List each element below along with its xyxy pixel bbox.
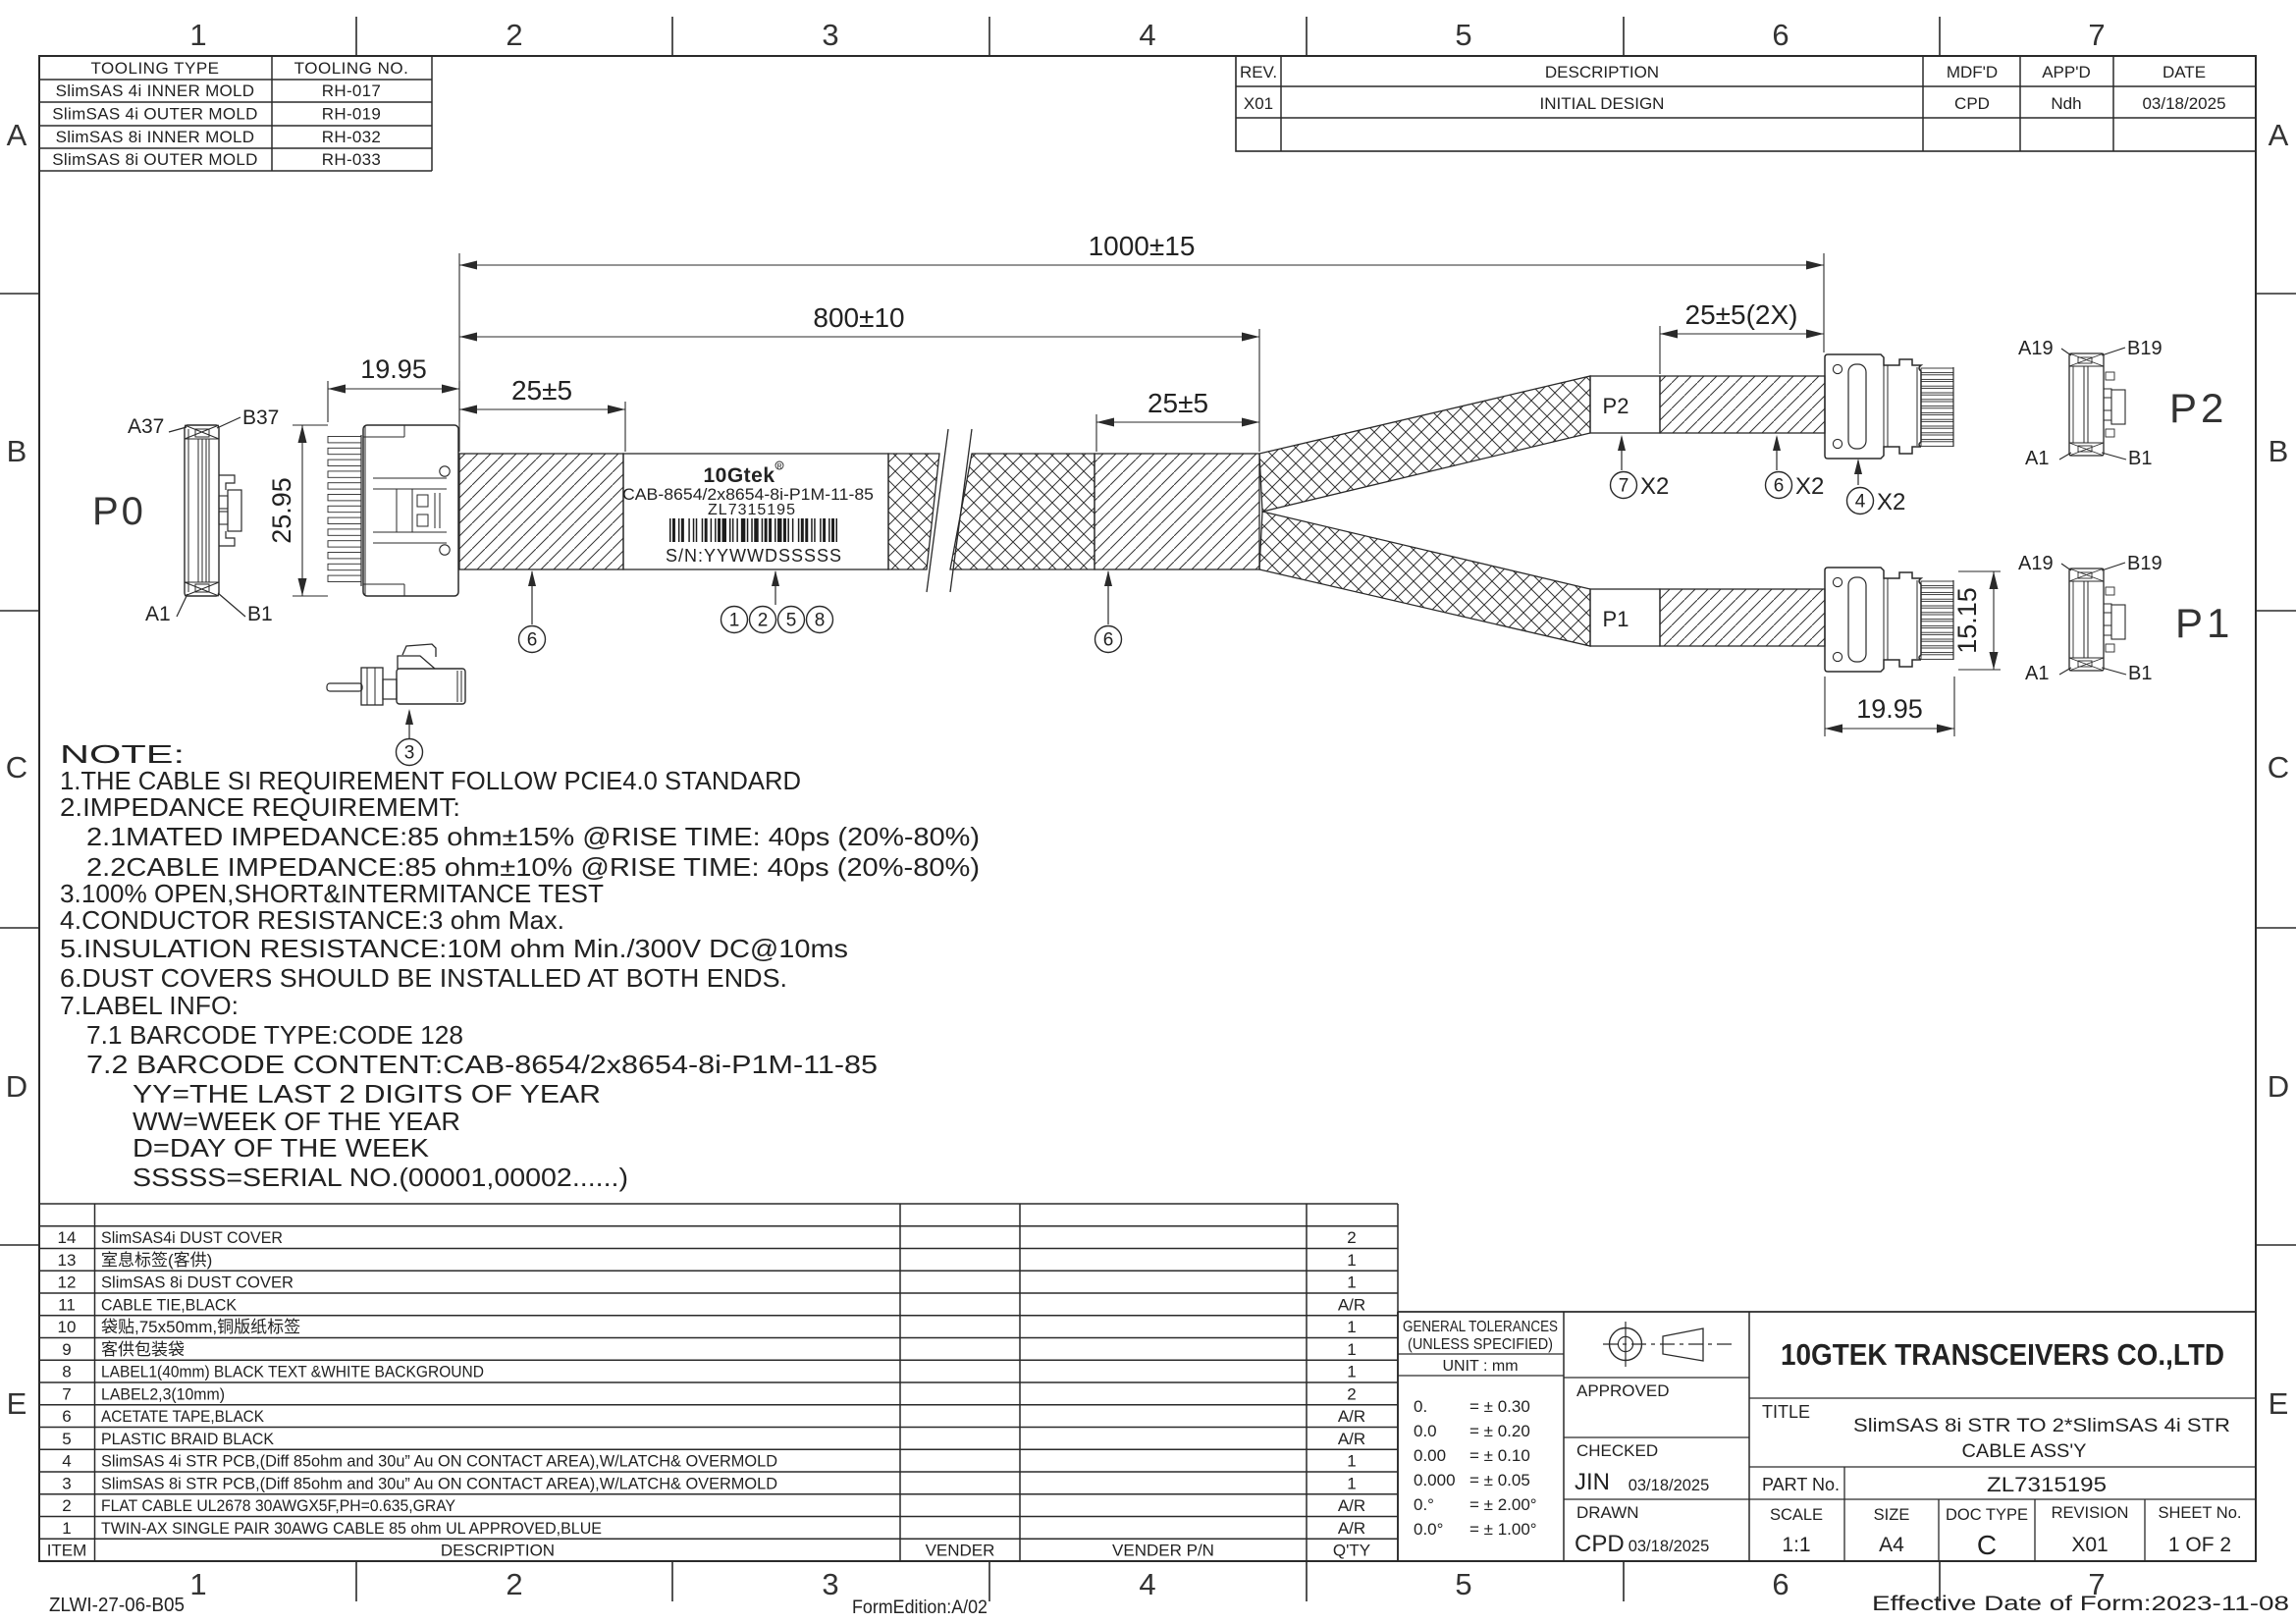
svg-text:Q'TY: Q'TY: [1333, 1542, 1370, 1560]
svg-text:3: 3: [822, 18, 838, 52]
svg-text:1: 1: [1347, 1251, 1356, 1270]
svg-text:7.1 BARCODE TYPE:CODE 128: 7.1 BARCODE TYPE:CODE 128: [86, 1020, 463, 1050]
cable label box: [623, 454, 888, 569]
svg-text:APP'D: APP'D: [2042, 63, 2091, 81]
svg-text:SlimSAS 4i STR PCB,(Diff 85ohm: SlimSAS 4i STR PCB,(Diff 85ohm and 30u” …: [101, 1452, 777, 1471]
svg-text:P1: P1: [1603, 607, 1629, 631]
P0 inner latch detail: [373, 477, 447, 479]
svg-text:= ± 0.10: = ± 0.10: [1469, 1446, 1530, 1465]
svg-text:B: B: [7, 434, 27, 468]
svg-text:SIZE: SIZE: [1874, 1506, 1910, 1524]
svg-text:4: 4: [1139, 1567, 1155, 1601]
svg-text:LABEL2,3(10mm): LABEL2,3(10mm): [101, 1384, 225, 1403]
dim 1000±15: [458, 253, 460, 452]
svg-text:ACETATE TAPE,BLACK: ACETATE TAPE,BLACK: [101, 1407, 265, 1426]
svg-text:A1: A1: [2025, 448, 2049, 469]
svg-text:1: 1: [1347, 1452, 1356, 1471]
tooling table: [39, 79, 432, 81]
svg-text:B19: B19: [2127, 338, 2163, 359]
svg-text:PART No.: PART No.: [1762, 1475, 1840, 1494]
svg-text:6: 6: [1772, 1567, 1789, 1601]
svg-text:3.100% OPEN,SHORT&INTERMITANCE: 3.100% OPEN,SHORT&INTERMITANCE TEST: [60, 879, 604, 908]
svg-text:SlimSAS 8i STR TO 2*SlimSA: SlimSAS 8i STR TO 2*SlimSAS 4i STR: [1853, 1415, 2230, 1436]
svg-text:= ± 0.05: = ± 0.05: [1469, 1471, 1530, 1489]
svg-text:1: 1: [1347, 1363, 1356, 1381]
svg-text:25±5: 25±5: [1148, 388, 1208, 418]
svg-text:室息标签(客供): 室息标签(客供): [101, 1251, 212, 1270]
svg-text:6: 6: [1772, 18, 1789, 52]
svg-text:4: 4: [62, 1452, 71, 1471]
svg-text:2.1MATED IMPEDANCE:85 ohm±15%: 2.1MATED IMPEDANCE:85 ohm±15% @RISE TIME…: [86, 822, 980, 851]
dim 800±10: [1258, 329, 1260, 452]
svg-text:客供包装袋: 客供包装袋: [101, 1340, 185, 1359]
dim 19.95 P0: [327, 381, 329, 422]
svg-text:ITEM: ITEM: [47, 1542, 87, 1560]
svg-text:SlimSAS 8i DUST COVER: SlimSAS 8i DUST COVER: [101, 1273, 294, 1292]
svg-text:SHEET No.: SHEET No.: [2159, 1504, 2242, 1522]
svg-text:0.0: 0.0: [1414, 1422, 1437, 1440]
svg-text:E: E: [2269, 1386, 2289, 1421]
svg-text:INITIAL DESIGN: INITIAL DESIGN: [1540, 94, 1665, 113]
callout 6 mid: [1107, 571, 1109, 624]
svg-text:1: 1: [189, 18, 206, 52]
braid upper branch: [1259, 376, 1590, 512]
svg-text:SSSSS=SERIAL NO.(00001,00002..: SSSSS=SERIAL NO.(00001,00002......): [133, 1163, 628, 1192]
svg-text:REV.: REV.: [1240, 63, 1277, 81]
svg-text:2: 2: [62, 1496, 71, 1515]
svg-text:ZL7315195: ZL7315195: [708, 502, 796, 518]
svg-text:X2: X2: [1877, 489, 1905, 515]
svg-text:2.2CABLE IMPEDANCE:85 ohm±10%: 2.2CABLE IMPEDANCE:85 ohm±10% @RISE TIME…: [86, 852, 980, 882]
svg-text:03/18/2025: 03/18/2025: [2142, 94, 2225, 113]
svg-text:= ± 0.20: = ± 0.20: [1469, 1422, 1530, 1440]
braid lower branch: [1259, 512, 1590, 646]
P0 comb contacts: [360, 435, 362, 586]
svg-text:6: 6: [1774, 476, 1785, 497]
svg-text:4: 4: [1855, 492, 1866, 513]
svg-text:10GTEK TRANSCEIVERS CO.,LTD: 10GTEK TRANSCEIVERS CO.,LTD: [1781, 1337, 2224, 1372]
zone row ticks left: [0, 293, 39, 295]
svg-text:SlimSAS 4i INNER MOLD: SlimSAS 4i INNER MOLD: [56, 81, 255, 100]
svg-text:12: 12: [58, 1273, 77, 1292]
svg-text:FormEdition:A/02: FormEdition:A/02: [852, 1597, 988, 1618]
svg-text:A19: A19: [2018, 553, 2054, 574]
connector P2 side view: [1825, 354, 1921, 459]
svg-text:SlimSAS 4i OUTER MOLD: SlimSAS 4i OUTER MOLD: [52, 104, 257, 123]
svg-text:ZLWI-27-06-B05: ZLWI-27-06-B05: [49, 1595, 185, 1616]
svg-text:A1: A1: [2025, 663, 2049, 684]
svg-text:X2: X2: [1640, 473, 1669, 500]
callout 7 X2: [1621, 437, 1623, 470]
dim 25±5 left: [624, 402, 626, 452]
svg-text:10: 10: [58, 1318, 77, 1336]
svg-text:25.95: 25.95: [267, 477, 296, 544]
svg-text:MDF'D: MDF'D: [1947, 63, 1998, 81]
svg-text:4.CONDUCTOR RESISTANCE:3 ohm M: 4.CONDUCTOR RESISTANCE:3 ohm Max.: [60, 905, 564, 935]
svg-text:P2: P2: [1603, 394, 1629, 418]
connector P0 front view: [185, 425, 219, 596]
svg-text:3: 3: [822, 1567, 838, 1601]
svg-text:(UNLESS SPECIFIED): (UNLESS SPECIFIED): [1408, 1336, 1553, 1353]
svg-text:X01: X01: [2071, 1534, 2108, 1556]
svg-text:25±5(2X): 25±5(2X): [1685, 299, 1798, 330]
svg-text:CPD: CPD: [1575, 1531, 1625, 1557]
svg-text:7: 7: [62, 1384, 71, 1403]
svg-text:1: 1: [1347, 1474, 1356, 1492]
P2 branch label box: [1590, 376, 1660, 433]
svg-text:Effective Date of Form:2023: Effective Date of Form:2023-11-08: [1872, 1593, 2289, 1615]
svg-text:APPROVED: APPROVED: [1576, 1381, 1669, 1400]
svg-text:14: 14: [58, 1228, 77, 1247]
svg-text:1.THE CABLE SI REQUIREMENT FOL: 1.THE CABLE SI REQUIREMENT FOLLOW PCIE4.…: [60, 766, 801, 795]
svg-text:1:1: 1:1: [1782, 1534, 1810, 1556]
svg-text:FLAT CABLE UL2678 30AWGX5F,PH=: FLAT CABLE UL2678 30AWGX5F,PH=0.635,GRAY: [101, 1496, 455, 1515]
svg-text:0.0°: 0.0°: [1414, 1520, 1443, 1539]
svg-text:= ± 0.30: = ± 0.30: [1469, 1397, 1530, 1416]
svg-text:5: 5: [786, 611, 797, 631]
svg-text:VENDER P/N: VENDER P/N: [1112, 1542, 1214, 1560]
svg-text:CPD: CPD: [1954, 94, 1990, 113]
svg-text:13: 13: [58, 1251, 77, 1270]
svg-text:B19: B19: [2127, 553, 2163, 574]
svg-text:2: 2: [758, 611, 769, 631]
svg-text:1: 1: [729, 611, 740, 631]
svg-text:WW=WEEK OF THE YEAR: WW=WEEK OF THE YEAR: [133, 1107, 460, 1136]
svg-text:TWIN-AX SINGLE PAIR 30AWG CABL: TWIN-AX SINGLE PAIR 30AWG CABLE 85 ohm U…: [101, 1519, 602, 1538]
dim 25±5 right: [1095, 414, 1097, 452]
svg-text:D: D: [2268, 1069, 2289, 1104]
svg-text:SlimSAS 8i INNER MOLD: SlimSAS 8i INNER MOLD: [56, 128, 255, 146]
svg-text:P1: P1: [2175, 600, 2233, 646]
svg-text:0.00: 0.00: [1414, 1446, 1446, 1465]
svg-text:A: A: [7, 118, 27, 152]
svg-text:P0: P0: [92, 490, 146, 533]
svg-text:B37: B37: [242, 406, 279, 429]
svg-text:03/18/2025: 03/18/2025: [1629, 1538, 1710, 1555]
svg-text:JIN: JIN: [1575, 1469, 1610, 1495]
svg-text:3: 3: [62, 1474, 71, 1492]
svg-text:DRAWN: DRAWN: [1576, 1503, 1639, 1522]
svg-text:A/R: A/R: [1338, 1295, 1365, 1314]
svg-text:RH-033: RH-033: [322, 150, 381, 169]
svg-text:X01: X01: [1244, 94, 1273, 113]
dim 15.15: [1958, 570, 2001, 572]
svg-text:X2: X2: [1795, 473, 1824, 500]
dust cover drawing: [397, 669, 465, 704]
svg-text:CHECKED: CHECKED: [1576, 1441, 1658, 1460]
svg-text:7: 7: [2088, 18, 2105, 52]
svg-text:NOTE:: NOTE:: [60, 739, 185, 769]
callout 3: [408, 711, 410, 738]
svg-text:0.000: 0.000: [1414, 1471, 1456, 1489]
label barcode: [669, 518, 837, 542]
svg-text:A19: A19: [2018, 338, 2054, 359]
svg-text:10Gtek: 10Gtek: [703, 464, 774, 487]
svg-text:9: 9: [62, 1340, 71, 1359]
svg-text:1: 1: [1347, 1340, 1356, 1359]
svg-text:1 OF 2: 1 OF 2: [2168, 1534, 2231, 1556]
callout 1 2 5 8: [774, 571, 776, 605]
svg-text:VENDER: VENDER: [926, 1542, 995, 1560]
svg-text:B1: B1: [2128, 448, 2152, 469]
svg-text:1: 1: [62, 1519, 71, 1538]
svg-text:1: 1: [189, 1567, 206, 1601]
cable braid section 3: [950, 454, 1095, 569]
dim 25.95: [293, 424, 328, 426]
projection cone: [1663, 1328, 1703, 1361]
zone column ticks top: [355, 17, 357, 56]
svg-text:S/N:YYWWDSSSSS: S/N:YYWWDSSSSS: [666, 546, 842, 566]
svg-text:DESCRIPTION: DESCRIPTION: [1545, 63, 1659, 81]
svg-text:= ± 2.00°: = ± 2.00°: [1469, 1495, 1537, 1514]
svg-text:A37: A37: [128, 415, 164, 438]
svg-text:1: 1: [1347, 1318, 1356, 1336]
svg-text:8: 8: [815, 611, 826, 631]
svg-text:DOC TYPE: DOC TYPE: [1946, 1506, 2028, 1524]
svg-text:A: A: [2269, 118, 2289, 152]
svg-text:19.95: 19.95: [1856, 694, 1923, 724]
cable hatch section 1: [459, 454, 623, 569]
svg-text:0.: 0.: [1414, 1397, 1427, 1416]
svg-text:RH-032: RH-032: [322, 128, 381, 146]
svg-text:C: C: [6, 750, 27, 785]
svg-text:5: 5: [1455, 18, 1471, 52]
svg-text:CABLE TIE,BLACK: CABLE TIE,BLACK: [101, 1295, 238, 1314]
svg-text:PLASTIC BRAID BLACK: PLASTIC BRAID BLACK: [101, 1430, 275, 1448]
P2 branch mold hatch: [1660, 376, 1825, 433]
svg-text:2: 2: [506, 18, 522, 52]
svg-text:0.°: 0.°: [1414, 1495, 1434, 1514]
svg-text:2: 2: [1347, 1228, 1356, 1247]
svg-text:UNIT : mm: UNIT : mm: [1442, 1358, 1518, 1375]
svg-text:1: 1: [1347, 1273, 1356, 1292]
svg-text:R: R: [776, 463, 781, 470]
svg-text:19.95: 19.95: [360, 354, 427, 384]
svg-text:P2: P2: [2169, 385, 2227, 431]
svg-text:4: 4: [1139, 18, 1155, 52]
connector P1 front view: [2069, 568, 2104, 671]
svg-text:B1: B1: [2128, 663, 2152, 684]
svg-text:5: 5: [62, 1430, 71, 1448]
svg-text:袋贴,75x50mm,铜版纸标签: 袋贴,75x50mm,铜版纸标签: [101, 1318, 300, 1336]
svg-text:CABLE ASS'Y: CABLE ASS'Y: [1962, 1440, 2087, 1462]
svg-text:15.15: 15.15: [1952, 587, 1982, 654]
svg-text:RH-019: RH-019: [322, 104, 381, 123]
dim 25±5(2X): [1659, 326, 1661, 374]
BOM table: [39, 1203, 1398, 1205]
svg-text:6: 6: [527, 630, 538, 651]
svg-text:6: 6: [1103, 630, 1114, 651]
connector P1 side view: [1825, 568, 1921, 672]
zone row ticks right: [2256, 293, 2296, 295]
svg-text:7: 7: [1619, 476, 1629, 497]
dim 19.95 P1: [1824, 677, 1826, 736]
svg-text:A/R: A/R: [1338, 1496, 1365, 1515]
callout 6 X2: [1776, 437, 1778, 470]
svg-text:6.DUST COVERS SHOULD BE INSTAL: 6.DUST COVERS SHOULD BE INSTALLED AT BOT…: [60, 963, 787, 993]
svg-text:C: C: [1977, 1530, 1997, 1560]
svg-text:DESCRIPTION: DESCRIPTION: [441, 1542, 555, 1560]
P1 branch mold hatch: [1660, 589, 1825, 646]
cable break: [927, 429, 948, 592]
svg-text:Ndh: Ndh: [2051, 94, 2081, 113]
svg-text:5.INSULATION RESISTANCE:10M oh: 5.INSULATION RESISTANCE:10M ohm Min./300…: [60, 934, 848, 963]
svg-text:A4: A4: [1879, 1534, 1904, 1556]
cable hatch section 4: [1095, 454, 1259, 569]
P1 branch label box: [1590, 589, 1660, 646]
P0 latch paddle: [219, 475, 235, 490]
svg-text:C: C: [2268, 750, 2289, 785]
svg-text:SlimSAS4i DUST COVER: SlimSAS4i DUST COVER: [101, 1228, 283, 1247]
callout 6 left: [531, 571, 533, 624]
svg-text:TITLE: TITLE: [1762, 1402, 1810, 1422]
svg-text:TOOLING TYPE: TOOLING TYPE: [90, 59, 219, 78]
svg-text:6: 6: [62, 1407, 71, 1426]
title block: [1398, 1311, 2256, 1313]
svg-text:LABEL1(40mm) BLACK TEXT &WHITE: LABEL1(40mm) BLACK TEXT &WHITE BACKGROUN…: [101, 1363, 484, 1381]
svg-text:REVISION: REVISION: [2052, 1504, 2129, 1522]
svg-text:2.IMPEDANCE REQUIREMEMT:: 2.IMPEDANCE REQUIREMEMT:: [60, 792, 460, 822]
zone column ticks bottom: [355, 1561, 357, 1601]
svg-text:11: 11: [58, 1295, 76, 1314]
svg-text:A/R: A/R: [1338, 1407, 1365, 1426]
P2 comb contacts: [1921, 368, 1953, 373]
svg-text:GENERAL TOLERANCES: GENERAL TOLERANCES: [1403, 1319, 1558, 1335]
svg-text:7.2 BARCODE CONTENT:CAB-8654/2: 7.2 BARCODE CONTENT:CAB-8654/2x8654-8i-P…: [86, 1050, 878, 1079]
svg-text:A/R: A/R: [1338, 1430, 1365, 1448]
svg-text:7.LABEL INFO:: 7.LABEL INFO:: [60, 991, 239, 1020]
svg-text:SlimSAS 8i STR PCB,(Diff 85ohm: SlimSAS 8i STR PCB,(Diff 85ohm and 30u” …: [101, 1474, 777, 1492]
svg-text:SCALE: SCALE: [1770, 1506, 1823, 1524]
svg-text:03/18/2025: 03/18/2025: [1629, 1477, 1710, 1494]
connector P2 front view: [2069, 353, 2104, 456]
dust cover latch: [398, 656, 435, 669]
svg-text:D=DAY OF THE WEEK: D=DAY OF THE WEEK: [133, 1133, 430, 1163]
P1 comb contacts: [1921, 581, 1953, 586]
svg-text:RH-017: RH-017: [322, 81, 381, 100]
callout 4 X2: [1857, 460, 1859, 485]
svg-text:TOOLING NO.: TOOLING NO.: [294, 59, 409, 78]
revision table: [1236, 56, 2256, 151]
svg-text:2: 2: [506, 1567, 522, 1601]
projection symbol: [1610, 1328, 1642, 1361]
svg-text:B1: B1: [247, 603, 273, 625]
svg-text:2: 2: [1347, 1384, 1356, 1403]
svg-text:D: D: [6, 1069, 27, 1104]
svg-text:E: E: [7, 1386, 27, 1421]
cable braid section 2: [888, 454, 939, 569]
svg-text:A/R: A/R: [1338, 1519, 1365, 1538]
svg-text:800±10: 800±10: [813, 302, 904, 333]
svg-text:ZL7315195: ZL7315195: [1987, 1474, 2107, 1496]
svg-text:8: 8: [62, 1363, 71, 1381]
svg-text:YY=THE LAST 2 DIGITS OF YEAR: YY=THE LAST 2 DIGITS OF YEAR: [133, 1079, 601, 1109]
svg-text:B: B: [2269, 434, 2289, 468]
svg-text:DATE: DATE: [2163, 63, 2206, 81]
svg-text:= ± 1.00°: = ± 1.00°: [1469, 1520, 1537, 1539]
svg-text:25±5: 25±5: [511, 375, 572, 406]
svg-text:SlimSAS 8i OUTER MOLD: SlimSAS 8i OUTER MOLD: [52, 150, 257, 169]
svg-text:3: 3: [404, 743, 415, 764]
svg-text:1000±15: 1000±15: [1089, 231, 1196, 261]
connector P0 side view body: [363, 425, 458, 596]
P0 overmold screws: [440, 466, 450, 476]
svg-text:5: 5: [1455, 1567, 1471, 1601]
svg-text:A1: A1: [145, 603, 171, 625]
